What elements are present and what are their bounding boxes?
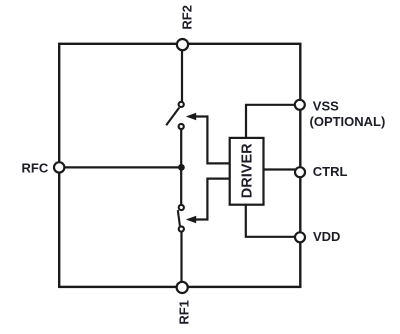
wire driver control to S1 with arrowhead [186, 113, 230, 164]
switch S2 (RF1 arm, nearly closed) [178, 205, 184, 232]
chip outline [59, 44, 300, 287]
wire RFC pin to center junction [60, 166, 181, 168]
pin VSS (optional) [295, 99, 386, 129]
pin RFC [22, 160, 65, 175]
svg-text:VDD: VDD [313, 229, 340, 244]
node center junction [178, 164, 185, 171]
wire driver right to CTRL pin [264, 168, 296, 170]
switch S1 (RF2 arm, open) [166, 102, 184, 129]
wire driver bottom to VDD pin [246, 205, 295, 237]
wire RF2 pin to switch S1 top contact [181, 45, 183, 102]
svg-text:RF2: RF2 [179, 5, 194, 30]
pin VDD [295, 229, 340, 244]
svg-text:RFC: RFC [22, 160, 49, 175]
svg-text:CTRL: CTRL [313, 164, 348, 179]
wire S2 bottom contact to RF1 pin [180, 232, 182, 287]
wire S1 bottom contact to S2 top contact through junction [180, 129, 182, 204]
wire driver top to VSS pin [246, 105, 295, 138]
pin CTRL [295, 164, 348, 179]
svg-text:RF1: RF1 [176, 300, 191, 325]
driver block U1 [230, 138, 264, 205]
svg-text:DRIVER: DRIVER [239, 143, 255, 198]
svg-text:VSS: VSS [313, 99, 339, 114]
wire driver control to S2 with arrowhead [186, 179, 230, 224]
pin RF2 [177, 5, 194, 50]
pin RF1 [176, 282, 191, 325]
svg-text:(OPTIONAL): (OPTIONAL) [310, 114, 386, 129]
